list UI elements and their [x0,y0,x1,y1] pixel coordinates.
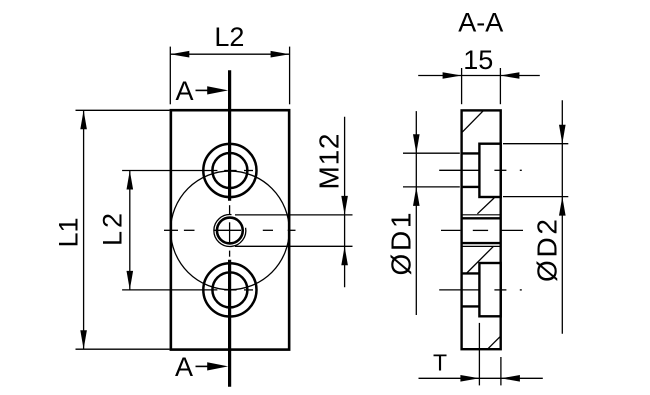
label L2 (plate width) [214,22,244,52]
label M12 (rotated) [314,134,345,190]
hatch line below center hole [466,246,493,273]
dimension D2 extension lines [503,144,568,197]
label L1 (rotated) [54,217,84,247]
horizontal centerline of bottom hole (front view) [122,289,253,291]
section cutting line thin chain segments near center hole [229,205,231,257]
label 15 [463,45,493,75]
dimension T extension lines [479,323,501,386]
dimension M12 extension lines [235,215,353,246]
section view outline rectangle [462,110,501,349]
dimension L2 (plate width) extension lines [170,47,289,105]
center tapped hole M12 (front view) drill circle [217,218,243,244]
dimension 15 line with outside arrowheads [418,72,540,79]
label L2 (rotated, hole spacing) [98,213,128,246]
label diameter D1 (rotated) [386,213,417,276]
dimension D1 line with outside arrowheads [413,111,420,315]
counterbored hole top (front view) outer circle [203,144,256,197]
svg-text:ØD2: ØD2 [532,219,563,282]
center tapped hole M12 (section) thread crest thin lines [462,215,501,247]
section cutting line A-A (thick vertical) [228,70,231,387]
horizontal centerline of center hole (front view, chain line) [164,229,296,231]
label A-A [458,8,503,38]
dimension L1 extension lines [76,110,170,349]
bottom hole counterbore rectangle (section) [479,263,500,316]
label T [433,350,447,376]
counterbored hole bottom (front view) outer circle [203,263,256,316]
section arrow bottom (points right at cutting line) [196,362,229,370]
top hole through-bore lines (section) [462,153,480,187]
label A top [175,76,193,106]
hatch line bottom region [488,336,501,349]
counterbored hole top (front view) inner circle [212,153,247,188]
svg-text:T: T [433,350,447,376]
center tapped hole M12 (section) drill lines [462,218,501,243]
hatch line top region [462,110,483,132]
svg-text:15: 15 [463,45,493,75]
svg-text:L2: L2 [214,22,244,52]
hatch line above center hole [477,198,494,214]
dimension D2 line with outside arrowheads [559,100,566,333]
dimension D1 extension lines [403,153,460,187]
centerline of top hole (section view) [439,169,522,171]
bottom hole through-bore lines (section) [462,273,480,306]
label diameter D2 (rotated) [532,219,563,282]
center tapped hole M12 thread crest arc (thin, open at NE) [214,215,246,247]
front view plate outline [171,110,289,349]
dimension L1 line with arrowheads [80,110,87,349]
dimension L2 (plate width) line with arrowheads [170,51,289,58]
centerline of bottom hole (section view) [439,289,522,291]
dimension T line with outside arrowheads [419,375,543,382]
section arrow top (points right at cutting line) [196,86,229,94]
svg-text:L1: L1 [54,217,84,247]
counterbored hole bottom (front view) inner circle [212,272,247,307]
svg-text:A: A [175,76,193,106]
top hole counterbore rectangle (section) [479,144,500,197]
centerline of center hole (section view) [441,229,523,231]
svg-text:A: A [175,352,193,382]
svg-text:M12: M12 [314,134,345,190]
dimension M12 line with outside arrowheads [341,117,348,288]
svg-text:ØD1: ØD1 [386,213,417,276]
dimension 15 extension lines [462,68,501,104]
pitch/boss circle (thin large circle tangent to plate sides) [171,171,290,290]
svg-text:A-A: A-A [458,8,503,38]
dimension L2 (hole spacing) line with arrowheads [127,171,134,290]
horizontal centerline of top hole (front view) [122,170,253,172]
label A bottom [175,352,193,382]
